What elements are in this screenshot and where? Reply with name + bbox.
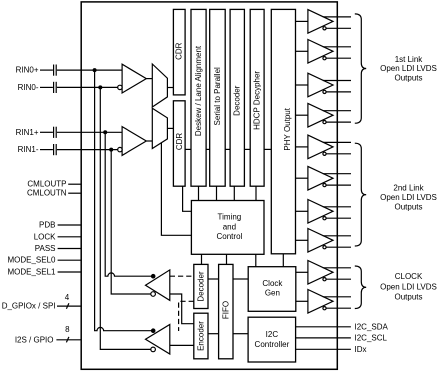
GPIO line driver 2 [146, 325, 170, 355]
svg-text:1st Link: 1st Link [395, 55, 424, 64]
LVDS output buffer 4 [308, 103, 333, 127]
label: CLOCK Open LDI LVDS Outputs [380, 272, 437, 302]
wire: buffer 8 true output [323, 235, 351, 237]
Decoder block (data path) [230, 9, 244, 186]
svg-text:CMLOUTP: CMLOUTP [27, 180, 66, 189]
svg-text:HDCP Decypher: HDCP Decypher [253, 71, 262, 130]
wire: MODE_SEL1 pin lead [58, 271, 82, 273]
PHY Output block [271, 9, 295, 253]
svg-text:I2C: I2C [266, 330, 279, 339]
wire: buffer 2 true output [323, 46, 351, 48]
svg-text:8: 8 [65, 325, 70, 334]
wire: I2C_SCL pin lead [296, 337, 351, 339]
wire: HDCP to Timing and Control [255, 186, 257, 200]
svg-text:Decoder: Decoder [196, 271, 205, 302]
brace: clock outputs group [355, 266, 366, 309]
brace: 1st link outputs group [355, 14, 366, 123]
svg-text:PDB: PDB [39, 221, 55, 230]
wire: RIN1- tap down to GPIO driver 1 bubble [111, 150, 150, 294]
LVDS output buffer 3 [308, 73, 333, 97]
junction dot on RIN1+ [103, 130, 107, 134]
wire: input to LVDS buffer 6 [296, 177, 308, 179]
svg-text:PASS: PASS [35, 244, 56, 253]
svg-text:CDR: CDR [175, 133, 184, 151]
wire: input to LVDS buffer 1 [296, 20, 308, 22]
dashed wire: Decoder down to driver 2 [179, 301, 194, 331]
wire: driver 1 to Encoder [170, 294, 194, 324]
wire: I2C_SDA pin lead [296, 326, 351, 328]
wire: input to LVDS buffer 7 [296, 210, 308, 212]
wire: input to LVDS buffer 8 [296, 239, 308, 241]
svg-text:I2S / GPIO: I2S / GPIO [15, 335, 54, 344]
wire: input to LVDS buffer 5 [296, 146, 308, 148]
mux A (2:1 input select) [152, 64, 167, 107]
wire: buffer 6 complement output [326, 184, 351, 186]
AC coupling capacitor on RIN0+ [54, 65, 57, 76]
wire: mux A output to CDR1 [167, 87, 173, 89]
svg-text:RIN0-: RIN0- [18, 83, 39, 92]
wire: buffer 1 true output [323, 16, 351, 18]
wire: Deskew to Timing and Control [198, 186, 200, 200]
Deskew / Lane Alignment block [191, 9, 206, 186]
wire: RIN0+ pin lead [40, 69, 53, 71]
wire: link CDR2 to Deskew [185, 148, 191, 150]
Timing and Control block [191, 201, 264, 255]
svg-text:PHY Output: PHY Output [283, 107, 292, 150]
wire: mux B to Timing and Control [161, 143, 191, 235]
svg-text:I2C_SDA: I2C_SDA [355, 322, 389, 331]
svg-text:IDx: IDx [355, 345, 367, 354]
svg-text:MODE_SEL1: MODE_SEL1 [7, 268, 56, 277]
wire: MODE_SEL0 pin lead [58, 259, 82, 261]
wire: buffer 7 true output [323, 206, 351, 208]
inversion bubble at driver 1 negative output [151, 292, 156, 297]
GPIO line driver 1 [146, 270, 170, 301]
junction dot at driver 2 positive output [151, 328, 156, 333]
wire: IDx pin lead [296, 348, 351, 350]
svg-text:RIN1-: RIN1- [18, 145, 39, 154]
dashed wire: Decoder to driver 1 [170, 275, 194, 277]
wire: buffer 10 complement output [326, 307, 351, 309]
svg-text:Open LDI LVDS: Open LDI LVDS [380, 283, 437, 292]
wire: GPIO Decoder to FIFO [208, 278, 219, 280]
svg-text:CDR: CDR [175, 42, 184, 60]
Serial to Parallel block [210, 9, 226, 186]
brace: 2nd link outputs group [355, 143, 366, 246]
wire: link Deskew to Serial-to-Parallel [206, 148, 210, 150]
svg-text:Decoder: Decoder [233, 85, 242, 116]
wire: RIN1- pin lead [40, 149, 53, 151]
chip outer boundary box [81, 2, 337, 369]
svg-text:4: 4 [65, 293, 70, 302]
wire: D_GPIOx / SPI pin lead [57, 305, 81, 307]
CDR1 [173, 9, 185, 95]
wire: RIN0- pin lead [40, 86, 53, 88]
wire: I2S / GPIO pin lead [56, 339, 81, 341]
wire: LOCK pin lead [58, 236, 82, 238]
wire: RIN0+ tap down to GPIO driver 2 (hop over RIN0- tap) [95, 70, 151, 331]
inversion bubble of buffer 5 [323, 152, 326, 155]
wire: buffer 3 complement output [326, 91, 351, 93]
wire: link Serial-to-Parallel to Decoder [225, 148, 230, 150]
svg-text:LOCK: LOCK [34, 232, 56, 241]
svg-text:FIFO: FIFO [221, 301, 230, 319]
wire: input to LVDS buffer 10 [296, 300, 308, 302]
Clock Gen block [248, 267, 296, 312]
junction dot at driver 1 positive output [151, 274, 156, 279]
wire: Timing to Clock Gen [255, 254, 257, 266]
wire: comparator B output [146, 140, 152, 142]
LVDS output buffer 1 [308, 10, 333, 34]
inversion bubble at driver 2 negative output [151, 347, 156, 352]
AC coupling capacitor on RIN0- [54, 82, 57, 93]
inversion bubble of buffer 6 [323, 184, 326, 187]
bus width 4 marker on D_GPIOx/SPI [65, 293, 70, 309]
wire: input to LVDS buffer 4 [296, 114, 308, 116]
comparator A (RIN0 receiver) [122, 64, 146, 93]
svg-text:Serial to Parallel: Serial to Parallel [213, 67, 222, 125]
junction dot on RIN1- [109, 148, 113, 152]
wire: RIN0+ to comparator A [57, 69, 122, 71]
svg-text:CLOCK: CLOCK [395, 272, 423, 281]
I2C Controller block [248, 317, 296, 362]
svg-text:Outputs: Outputs [394, 293, 422, 302]
svg-text:Timing: Timing [218, 213, 242, 222]
wire: buffer 4 complement output [326, 121, 351, 123]
wire: buffer 4 true output [323, 110, 351, 112]
wire: CMLOUTP pin lead [68, 183, 81, 185]
LVDS output buffer 5 [308, 135, 333, 159]
wire: Serial-to-Parallel to Timing and Control [216, 186, 218, 200]
wire: input to LVDS buffer 9 [296, 271, 308, 273]
label: 1st Link Open LDI LVDS Outputs [380, 55, 437, 83]
svg-text:Outputs: Outputs [394, 202, 422, 211]
svg-text:Open LDI LVDS: Open LDI LVDS [380, 193, 437, 202]
svg-text:and: and [223, 222, 236, 231]
wire: buffer 3 true output [323, 80, 351, 82]
svg-text:D_GPIOx / SPI: D_GPIOx / SPI [2, 302, 56, 311]
wire: comparator A output [146, 78, 152, 80]
AC coupling capacitor on RIN1- [54, 144, 57, 155]
LVDS output buffer 10 [308, 290, 333, 314]
svg-text:CMLOUTN: CMLOUTN [27, 189, 67, 198]
wire: input to LVDS buffer 2 [296, 50, 308, 52]
AC coupling capacitor on RIN1+ [54, 127, 57, 138]
wire: RIN1+ pin lead [40, 131, 53, 133]
wire: CDR2 to Timing and Control [183, 186, 192, 211]
comparator A inverting bubble [118, 85, 122, 89]
wire: RIN1+ to comparator B [57, 131, 122, 133]
svg-text:2nd Link: 2nd Link [393, 183, 424, 192]
bus width 8 marker on I2S/GPIO [65, 325, 70, 343]
inversion bubble of buffer 1 [323, 27, 326, 30]
svg-text:Outputs: Outputs [394, 74, 422, 83]
wire: RIN1- to comparator B bubble [57, 149, 118, 151]
svg-text:Control: Control [217, 232, 243, 241]
wire: Timing to GPIO Decoder [201, 254, 203, 264]
wire: input to LVDS buffer 3 [296, 84, 308, 86]
wire: Encoder to driver 2 [170, 344, 194, 346]
svg-text:Deskew / Lane Alignment: Deskew / Lane Alignment [194, 45, 203, 136]
LVDS output buffer 6 [308, 166, 333, 190]
Decoder block (GPIO path) [194, 264, 208, 308]
inversion bubble of buffer 10 [323, 307, 326, 310]
LVDS output buffer 7 [308, 200, 333, 224]
junction dot on RIN0+ [93, 68, 97, 72]
svg-text:RIN0+: RIN0+ [16, 66, 39, 75]
wire: buffer 5 complement output [326, 153, 351, 155]
svg-text:Encoder: Encoder [196, 321, 205, 351]
Encoder block (GPIO path) [194, 313, 208, 359]
wire: buffer 10 true output [323, 296, 351, 298]
HDCP Decypher block [250, 9, 264, 186]
wire: Decoder to Timing and Control [233, 186, 235, 200]
mux B (2:1 input select) [152, 108, 167, 148]
wire: buffer 6 true output [323, 173, 351, 175]
wire: RIN1+ tap down to GPIO driver 1 (hop over RIN1- tap) [105, 132, 151, 276]
label: 2nd Link Open LDI LVDS Outputs [380, 183, 437, 211]
inversion bubble of buffer 3 [323, 90, 326, 93]
svg-text:Clock: Clock [262, 279, 283, 288]
wire: FIFO to I2C Controller [233, 333, 248, 335]
svg-text:I2C_SCL: I2C_SCL [355, 333, 388, 342]
wire: buffer 9 true output [323, 267, 351, 269]
FIFO block [219, 264, 233, 358]
wire: buffer 1 complement output [326, 27, 351, 29]
wire: buffer 9 complement output [326, 278, 351, 280]
svg-text:MODE_SEL0: MODE_SEL0 [7, 256, 56, 265]
LVDS output buffer 2 [308, 40, 333, 64]
wire: Timing to FIFO [226, 254, 228, 264]
wire: Encoder to FIFO [208, 333, 219, 335]
junction dot on RIN0- [98, 85, 102, 89]
inversion bubble of buffer 8 [323, 246, 326, 249]
LVDS output buffer 8 [308, 229, 333, 253]
comparator B inverting bubble [118, 147, 122, 151]
CDR2 [173, 101, 185, 186]
wire: PDB pin lead [58, 224, 82, 226]
inversion bubble of buffer 4 [323, 121, 326, 124]
wire: mux B output to CDR2 [167, 127, 173, 129]
svg-text:Open LDI LVDS: Open LDI LVDS [380, 64, 437, 73]
inversion bubble of buffer 2 [323, 57, 326, 60]
inversion bubble of buffer 9 [323, 278, 326, 281]
LVDS output buffer 9 [308, 261, 333, 285]
wire: CMLOUTN pin lead [68, 192, 81, 194]
wire: PHY Output to Clock Gen [282, 254, 284, 267]
wire: RIN0- to comparator A bubble [57, 86, 118, 88]
inversion bubble of buffer 7 [323, 217, 326, 220]
wire: buffer 7 complement output [326, 217, 351, 219]
wire: PASS pin lead [58, 248, 82, 250]
wire: link HDCP to PHY Output [264, 148, 271, 150]
svg-text:RIN1+: RIN1+ [16, 128, 39, 137]
wire: buffer 8 complement output [326, 246, 351, 248]
wire: RIN0- tap down to GPIO driver 2 bubble [100, 87, 150, 349]
svg-text:Gen: Gen [265, 289, 280, 298]
wire: link Decoder to HDCP [244, 148, 250, 150]
svg-text:Controller: Controller [255, 340, 290, 349]
wire: FIFO to Clock Gen [233, 278, 248, 280]
comparator B (RIN1 receiver) [122, 127, 146, 156]
wire: buffer 2 complement output [326, 57, 351, 59]
wire: buffer 5 true output [323, 141, 351, 143]
